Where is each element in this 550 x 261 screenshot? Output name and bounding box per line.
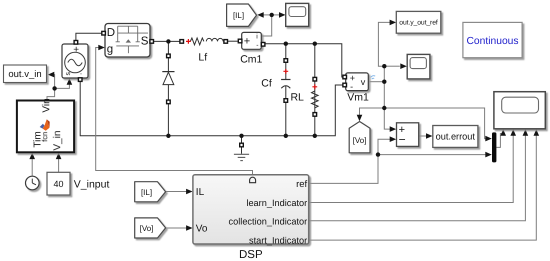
inductor Lf: [190, 38, 223, 63]
svg-text:Vo: Vo: [196, 224, 208, 235]
junction node v / mux-sum branch: [382, 106, 386, 110]
arrowhead into DSP IL: [186, 189, 193, 195]
svg-text:D: D: [107, 27, 115, 39]
MATLAB logo: [40, 119, 50, 131]
svg-text:s: s: [65, 72, 72, 76]
arrowhead scope input 3: [523, 129, 529, 136]
port square Cm1 -: [261, 43, 265, 47]
svg-text:-: -: [350, 81, 353, 91]
arrowhead into out.y_out_ref: [390, 20, 397, 26]
goto tag [IL]: [227, 4, 257, 26]
arrowhead into Goto IL: [257, 12, 264, 18]
svg-text:out.v_in: out.v_in: [8, 69, 41, 80]
goto tag [Vo] (down): [349, 122, 370, 153]
svg-text:v: v: [361, 77, 366, 87]
outport block out.v_in: [4, 65, 47, 83]
wire DSP start_Indicator to scope: [309, 135, 536, 241]
svg-text:Cf: Cf: [261, 78, 272, 90]
scope Scope2 (v): [407, 54, 430, 79]
arrowhead scope input 4: [534, 129, 540, 136]
junction node rail / Cf top: [284, 42, 288, 46]
wire Cf branch lower: [285, 86, 287, 136]
diode D1 (freewheeling): [162, 72, 174, 85]
wire Vm1 v output: [370, 81, 385, 83]
svg-text:start_Indicator: start_Indicator: [249, 235, 307, 245]
port square Lf out: [224, 40, 228, 44]
wire From Vo to DSP: [166, 227, 188, 229]
capacitor Cf: [261, 78, 290, 90]
junction node rail / RL top: [313, 42, 317, 46]
junction node bus / RL: [313, 134, 317, 138]
port square RL top: [313, 77, 317, 81]
svg-text:fcn: fcn: [40, 132, 49, 142]
port square MOSFET D: [102, 31, 106, 35]
svg-text:-: -: [80, 72, 82, 78]
mux block: [492, 132, 496, 162]
svg-text:V_in: V_in: [52, 131, 63, 151]
wire v to out.y_out_ref: [378, 22, 390, 66]
port square Vm1 +: [343, 75, 347, 79]
port square Cf bottom: [284, 99, 288, 103]
svg-text:Continuous: Continuous: [466, 36, 518, 47]
wire MOSFET S to Lf input: [154, 40, 180, 42]
svg-text:Vin: Vin: [41, 98, 52, 112]
voltage measurement Vm1: [346, 73, 375, 104]
transistor MOSFET switch: [105, 24, 150, 58]
port square diode top: [167, 54, 171, 58]
svg-text:[IL]: [IL]: [233, 11, 244, 20]
subsystem DSP: [193, 175, 309, 246]
svg-text:S: S: [141, 36, 149, 48]
ground symbol: [234, 154, 249, 160]
outport block out.y_out_ref: [396, 11, 441, 33]
wire ground bus: [80, 82, 342, 136]
arrowhead into out.errout: [426, 133, 433, 139]
wire Cf branch upper: [285, 44, 287, 80]
wire v to Goto Vo: [360, 108, 385, 116]
junction node ref branch: [376, 152, 380, 156]
wire Lf out to Cm1 +: [228, 40, 238, 42]
scope Scope1 (IL): [286, 3, 309, 26]
junction node bus / diode: [166, 134, 170, 138]
polarity mark + at Lf: [186, 39, 191, 44]
arrowhead scope input 1: [500, 129, 506, 136]
arrowhead into Scope1: [279, 12, 286, 18]
wire RL branch: [314, 44, 316, 136]
wire source + to MOSFET D: [76, 33, 102, 43]
wire Cm1 i measurement up: [262, 15, 272, 36]
arrowhead into Goto Vo: [357, 115, 363, 122]
wire DSP learn_Indicator to scope: [309, 135, 513, 203]
wire v vertical trunk: [383, 66, 385, 108]
resistor RL: [290, 91, 318, 108]
port square diode bottom: [167, 100, 171, 104]
powergui block Continuous: [463, 22, 522, 57]
port square Cf top: [284, 59, 288, 63]
wire v to Sum + input: [384, 108, 391, 129]
svg-text:IL: IL: [196, 187, 205, 198]
wire diode branch vertical: [167, 41, 169, 135]
svg-text:+: +: [244, 35, 250, 47]
svg-text:g: g: [107, 44, 113, 56]
port square RL bottom: [313, 113, 317, 117]
svg-text:40: 40: [53, 179, 63, 189]
svg-text:-: -: [256, 42, 258, 49]
controlled voltage source Vin: [62, 44, 88, 78]
svg-text:DSP: DSP: [239, 249, 263, 261]
junction node Vin signal: [52, 86, 56, 90]
wire fcn Vin output to junction: [47, 75, 55, 101]
wire v to Scope2: [384, 65, 400, 67]
arrowhead into Scope2: [400, 63, 407, 69]
arrowhead scope input 2: [510, 129, 516, 136]
junction node v / scope branch: [382, 64, 386, 68]
arrowhead into out.v_in: [48, 72, 55, 78]
junction node v / Vm1 out: [382, 80, 386, 84]
wire DSP ref feedback: [309, 139, 391, 183]
arrowhead into Mux input 2: [485, 152, 492, 158]
logging badge: [371, 76, 375, 80]
junction node IL tap: [270, 13, 274, 17]
wire clock to fcn Tim: [31, 155, 33, 176]
wire gate drive: DSP trigger to MOSFET g: [96, 48, 253, 175]
svg-text:out.y_out_ref: out.y_out_ref: [399, 19, 438, 26]
wire to Goto IL arrow: [263, 14, 272, 16]
arrowhead into source s port: [67, 78, 73, 85]
port square Cm1 +: [238, 39, 242, 43]
wire constant V_input to fcn V_in: [58, 155, 60, 172]
port square MOSFET S: [150, 40, 154, 44]
from tag [Vo]: [135, 218, 166, 238]
clock block: [26, 176, 40, 190]
wire Cm1 - output rail to Vm1 +: [265, 44, 342, 77]
port square Lf in: [180, 40, 184, 44]
svg-text:[Vo]: [Vo]: [140, 224, 154, 233]
junction node bus / ground: [239, 134, 243, 138]
junction node bus / Cf: [284, 134, 288, 138]
wire From IL to DSP: [166, 191, 188, 193]
polarity mark + at Cf: [283, 69, 288, 74]
svg-text:[IL]: [IL]: [141, 188, 152, 197]
svg-text:ref: ref: [296, 179, 307, 190]
arrowhead into Mux input 1: [485, 136, 492, 142]
svg-text:collection_Indicator: collection_Indicator: [229, 217, 308, 227]
trigger port icon: [250, 177, 256, 183]
svg-text:Vm1: Vm1: [347, 92, 369, 104]
wire to Scope1 arrow: [272, 14, 281, 16]
port square source -: [78, 78, 82, 82]
svg-text:[Vo]: [Vo]: [353, 136, 367, 145]
from tag [IL]: [135, 182, 166, 202]
svg-text:V_input: V_input: [74, 179, 110, 191]
junction node at MOSFET S / diode: [166, 39, 170, 43]
polarity mark + at RL: [312, 84, 317, 89]
svg-text:−: −: [399, 133, 406, 147]
wire Mux output to big scope: [496, 131, 503, 148]
constant block 40: [47, 172, 70, 195]
port square source +: [74, 41, 78, 45]
wire ref to Mux second input: [378, 154, 486, 156]
svg-text:learn_Indicator: learn_Indicator: [246, 198, 307, 208]
arrowhead into DSP Vo: [186, 225, 193, 231]
sum block (error): [397, 123, 419, 147]
svg-text:Lf: Lf: [198, 51, 207, 63]
arrowhead into fcn Tim: [29, 153, 35, 160]
wire v to Mux first input: [384, 108, 486, 139]
scope Scope3 (indicators, 4 inputs): [494, 92, 545, 129]
arrowhead into fcn V_in: [56, 153, 62, 160]
outport block out.errout: [433, 126, 478, 148]
svg-text:Cm1: Cm1: [240, 53, 262, 65]
wire DSP collection_Indicator to scope: [309, 135, 526, 221]
wire Sum output to out.errout: [419, 135, 427, 137]
wire junction to out.v_in (handled above) and to source s input: [55, 80, 70, 89]
svg-text:RL: RL: [290, 91, 304, 103]
MATLAB function block (Vin generator): [17, 98, 74, 152]
port square ground: [240, 143, 244, 147]
svg-text:out.errout: out.errout: [436, 132, 476, 142]
arrowhead into Sum +: [390, 126, 397, 132]
current measurement Cm1: [240, 32, 262, 65]
wire ground stem: [241, 136, 243, 154]
svg-text:+: +: [73, 45, 79, 56]
arrowhead into MOSFET g: [98, 45, 105, 51]
port square Vm1 -: [343, 83, 347, 87]
arrowhead into Sum -: [390, 136, 397, 142]
